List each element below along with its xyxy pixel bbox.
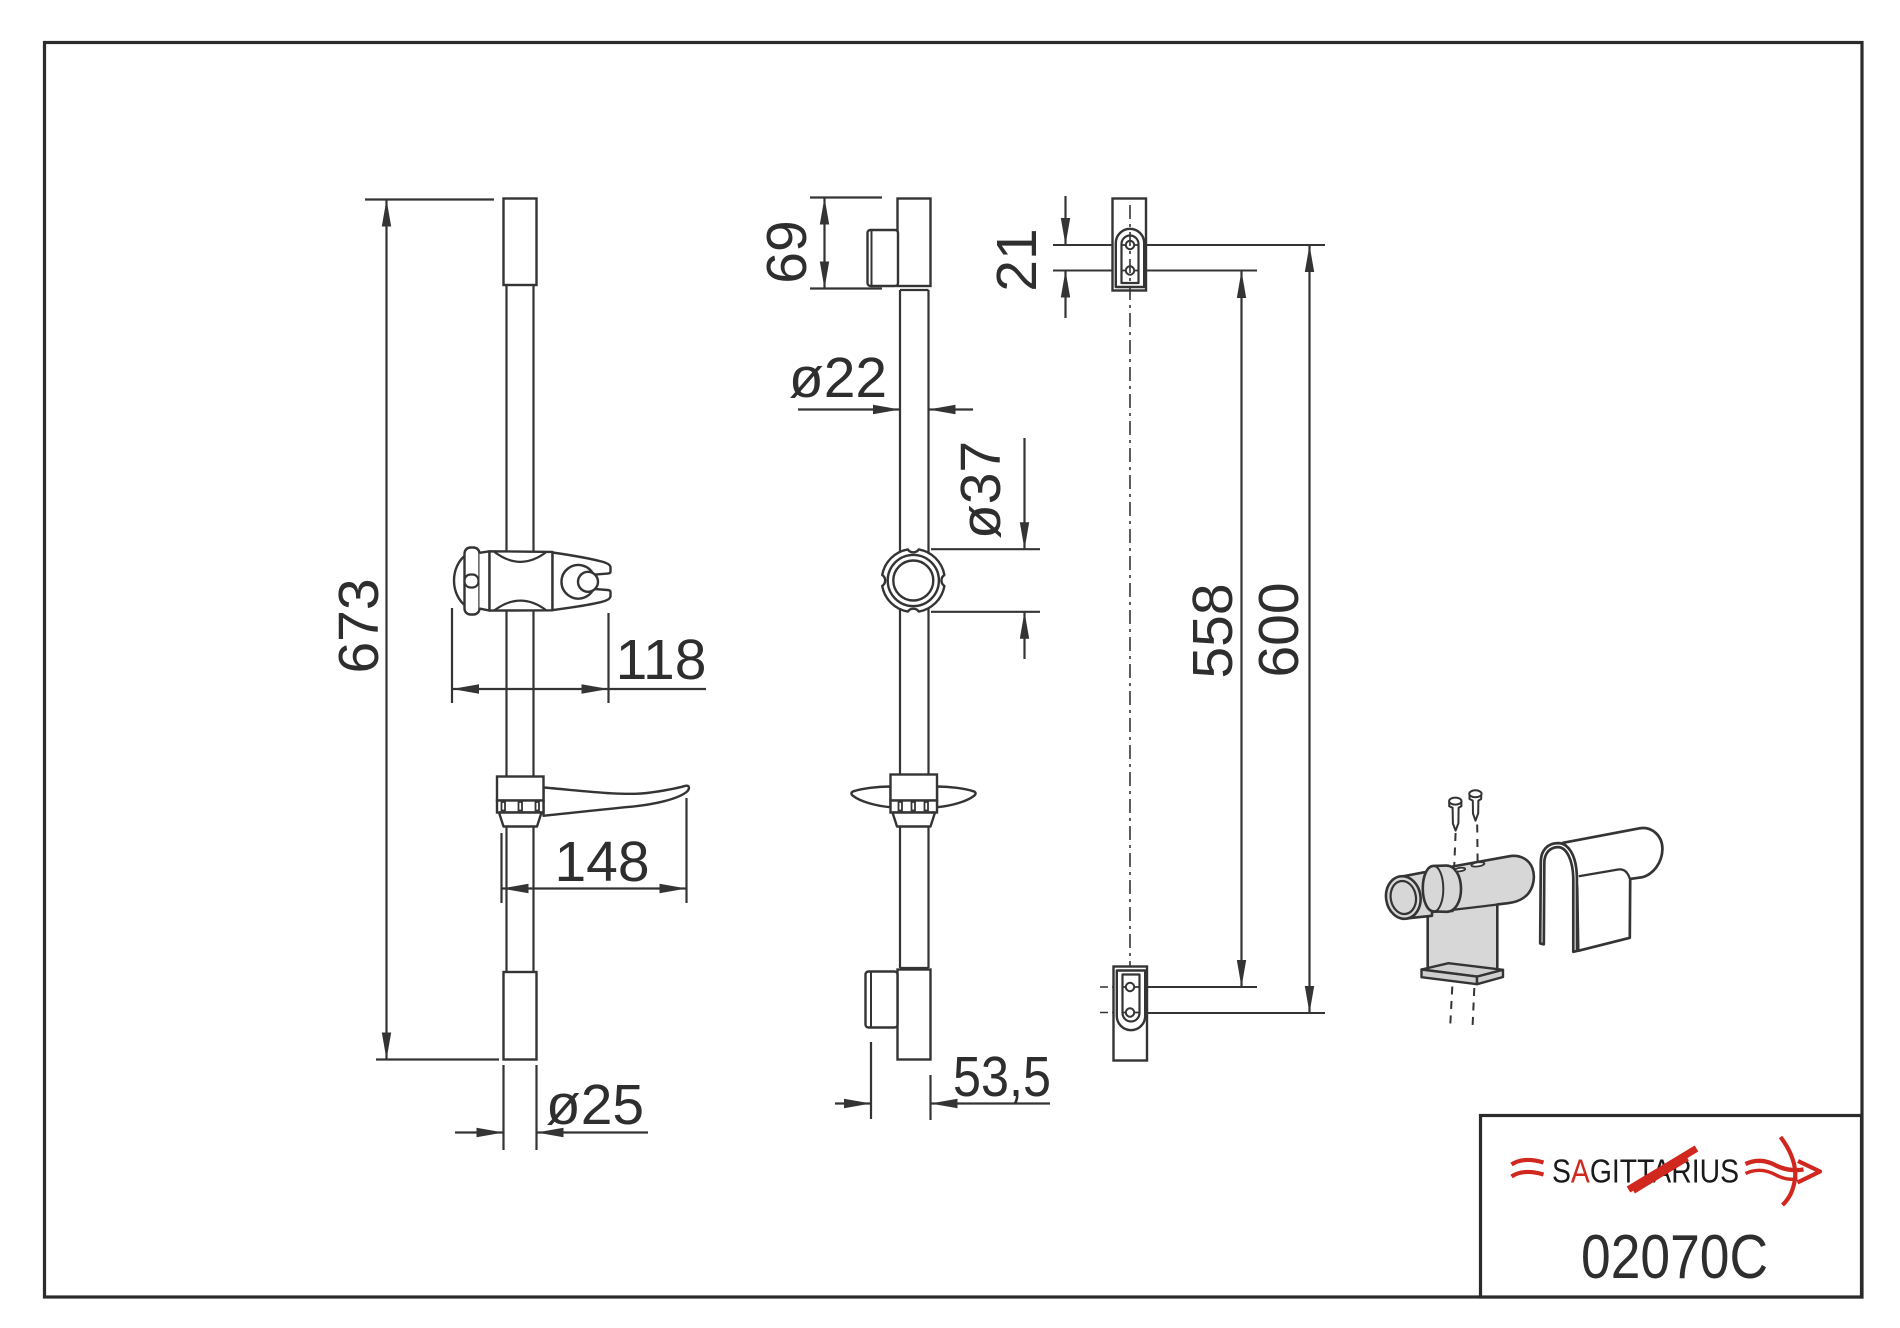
logo red arrow shaft [1746, 1161, 1804, 1170]
svg-text:53,5: 53,5 [953, 1045, 1051, 1109]
holder C-clip inner circle [578, 572, 598, 592]
iso base plate left face [1422, 970, 1478, 985]
title block frame [1481, 1116, 1862, 1298]
slider ring inner circle [893, 561, 933, 601]
iso bracket body and post (grey) [1428, 856, 1534, 976]
logo red bow arc [1781, 1137, 1796, 1205]
iso dashed lines below base [1450, 987, 1452, 1025]
holder clamp block [490, 551, 553, 610]
view 1 rail bottom end cap [504, 972, 537, 1060]
view 3 top bracket slot [1122, 236, 1139, 284]
slider ring middle circle [888, 555, 939, 606]
iso screw 2 [1470, 795, 1482, 821]
centerline stubs left of top bracket [1100, 244, 1113, 246]
dimension 558 line [1240, 271, 1242, 987]
short dash-dot stubs left of bottom bracket [1100, 986, 1113, 988]
dimension 118 extension lines [451, 608, 453, 703]
holder neck [480, 551, 490, 610]
iso collar left rim arc [1434, 866, 1443, 911]
dimension dia25 line [455, 1131, 504, 1133]
logo left red squiggle [1512, 1160, 1544, 1164]
holder head with C-clip [553, 553, 611, 611]
soap dish clamp slots [502, 802, 506, 811]
soap dish curved tray (front) [544, 786, 689, 816]
screw-center extension lines right [1146, 244, 1325, 246]
dimension 53,5 extension lines [870, 1042, 872, 1119]
svg-text:118: 118 [616, 628, 707, 692]
dimension dia37 line [1023, 438, 1025, 549]
view 1 rail top end cap [504, 199, 537, 286]
svg-text:600: 600 [1247, 582, 1311, 677]
soap dish clamp taper [499, 813, 542, 827]
iso cover arch band (white) [1540, 843, 1577, 952]
iso cover cap cylinder and plate (white) [1563, 828, 1662, 951]
iso cylinder-post separation line [1428, 905, 1497, 913]
view 3 top bracket screws [1122, 244, 1139, 246]
holder knob dome [454, 555, 467, 607]
dimension 69 extension lines [810, 196, 882, 198]
svg-text:ø25: ø25 [546, 1073, 644, 1137]
view 2 bottom wall bracket (side) [866, 972, 898, 1028]
view 2 top wall bracket (side) [868, 230, 899, 286]
dimension dia37 extension lines [931, 548, 1040, 550]
holder clamp top saddle arc [495, 552, 547, 562]
soap dish wing left (side) [851, 787, 890, 808]
dimension dia25 extension lines [502, 1065, 504, 1150]
iso dashed screw guide lines [1454, 833, 1455, 867]
iso base plate right face [1477, 970, 1503, 984]
logo red arrowhead [1798, 1161, 1821, 1183]
view 2 bottom tube end [900, 967, 929, 969]
soap dish clamp ribbed band [497, 801, 544, 813]
soap dish clamp slots (side) [899, 802, 903, 811]
slider ring (side view) [882, 549, 944, 611]
iso tube end cap outer ellipse [1383, 874, 1424, 922]
dimension 673 extension line bottom [376, 1058, 499, 1060]
dimension 600 line [1308, 245, 1310, 1013]
svg-text:21: 21 [985, 228, 1049, 291]
holder knob body [465, 548, 480, 615]
dimension 118 line [452, 688, 706, 690]
iso tube left segment (grey) [1403, 871, 1433, 919]
view 1 rail tube (front) [505, 285, 507, 972]
view 3 centerline [1129, 205, 1131, 1056]
dimension 673 extension line top [365, 198, 494, 200]
dimension 148 extension lines [500, 833, 502, 903]
holder clamp bottom saddle arc [495, 601, 547, 611]
iso cover plate top edge line [1579, 869, 1630, 878]
dimension 21 arrows [1064, 196, 1066, 245]
dimension 673 line [385, 200, 387, 1060]
view 3 bottom bracket arch [1117, 971, 1145, 1031]
soap dish clamp taper (side) [893, 813, 936, 827]
view 2 joint line [900, 289, 929, 291]
svg-text:69: 69 [755, 220, 819, 283]
view 2 rail top wide section [898, 199, 931, 287]
iso screw hole ellipses on rail [1455, 867, 1466, 872]
view 3 top bracket arch [1116, 229, 1144, 287]
view 3 bottom bracket outer [1114, 967, 1148, 1061]
svg-text:02070C: 02070C [1581, 1223, 1768, 1292]
iso collar band (grey) [1423, 866, 1461, 912]
svg-text:ø37: ø37 [949, 441, 1013, 539]
iso tube end cap inner ellipse [1388, 879, 1418, 916]
soap dish clamp upper (front) [497, 777, 544, 801]
soap dish clamp (side) [891, 775, 938, 801]
dimension 69 line [823, 198, 825, 289]
svg-text:ø22: ø22 [789, 346, 887, 410]
dimension 148 line [502, 887, 687, 889]
view 3 top bracket outer [1113, 199, 1147, 291]
svg-text:148: 148 [554, 830, 649, 894]
dimension 53,5 line [835, 1102, 871, 1104]
dimension 21 extension lines [1053, 244, 1113, 246]
iso screw 1 [1449, 802, 1461, 831]
svg-text:558: 558 [1181, 583, 1245, 678]
svg-text:673: 673 [327, 578, 391, 673]
view 2 rail tube (side) [899, 290, 901, 968]
view 3 bottom bracket screws [1123, 986, 1140, 988]
holder knob slot [465, 575, 479, 588]
dimension dia22 line [798, 408, 900, 410]
soap dish wing right (side) [937, 787, 976, 808]
view 3 centerline through brackets [1129, 205, 1131, 290]
logo red diagonal scribble [1629, 1149, 1697, 1190]
iso base plate top face [1422, 963, 1504, 976]
view 3 bottom bracket slot [1123, 975, 1140, 1022]
